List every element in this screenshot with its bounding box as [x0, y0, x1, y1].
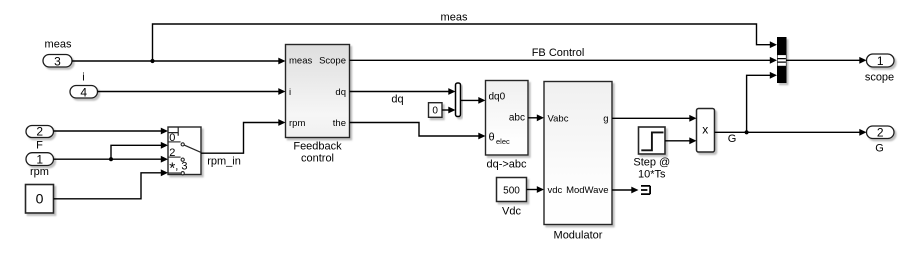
wire meas branch to bus creator (top) — [153, 24, 778, 61]
svg-text:ModWave: ModWave — [566, 185, 608, 196]
svg-text:rpm: rpm — [289, 118, 305, 129]
svg-text:abc: abc — [509, 113, 525, 124]
svg-text:Step @: Step @ — [633, 157, 670, 169]
wire feedback Scope to bus creator (FB Control) — [350, 57, 778, 64]
svg-text:G: G — [728, 133, 737, 145]
block dq->abc — [486, 81, 529, 156]
svg-text:i: i — [82, 71, 84, 83]
svg-text:g: g — [603, 113, 608, 124]
inport 2 (F) — [26, 125, 54, 139]
outport 1 (scope) — [867, 54, 895, 68]
bus creator — [777, 37, 787, 83]
wire Vdc to vdc — [527, 186, 545, 193]
svg-text:G: G — [875, 143, 884, 155]
svg-text:dq->abc: dq->abc — [486, 159, 527, 171]
terminator — [641, 186, 650, 194]
wire port2 to switch input 1 — [54, 128, 169, 135]
wire constant 0 to switch input 4 — [54, 169, 169, 198]
wire modulator g to product input 1 — [612, 115, 697, 122]
product block x — [697, 109, 715, 153]
constant Vdc (500) — [497, 178, 527, 202]
svg-text:x: x — [702, 123, 708, 137]
svg-text:dq: dq — [391, 94, 403, 106]
wire branch to switch input 2 — [111, 142, 168, 159]
svg-text:10*Ts: 10*Ts — [638, 168, 666, 180]
svg-text:F: F — [36, 140, 43, 152]
svg-text:meas: meas — [289, 56, 312, 67]
svg-text:vdc: vdc — [548, 185, 563, 196]
wire feedback dq to mux input 1 — [350, 88, 456, 95]
constant 0 (dq zero) — [429, 103, 443, 118]
svg-text:Feedback: Feedback — [293, 141, 342, 153]
step source block — [639, 127, 666, 154]
wire port4 to feedback i — [98, 88, 286, 95]
svg-text:2: 2 — [877, 126, 884, 140]
wire abc to Vabc — [528, 114, 544, 121]
constant 0 (rpm constant) — [26, 185, 54, 214]
svg-text:θ: θ — [489, 132, 495, 144]
svg-text:Scope: Scope — [319, 56, 346, 67]
svg-text:i: i — [289, 87, 291, 98]
svg-text:rpm: rpm — [30, 166, 49, 178]
wire step to product input 2 — [665, 137, 697, 144]
wire port3 to feedback meas — [72, 58, 286, 65]
svg-text:1: 1 — [877, 54, 884, 68]
inport 4 (i) — [70, 85, 98, 99]
wire branch to bus creator input 3 — [747, 72, 777, 132]
inport 1 (rpm) — [26, 152, 54, 166]
junction on meas wire — [150, 59, 154, 63]
svg-text:meas: meas — [45, 39, 72, 51]
junction on G wire — [745, 130, 749, 134]
svg-text:500: 500 — [503, 185, 520, 196]
wire bus creator to outport scope — [787, 57, 867, 64]
subsystem Modulator — [544, 82, 612, 225]
svg-text:2: 2 — [36, 125, 43, 139]
svg-text:0: 0 — [432, 106, 438, 117]
svg-text:scope: scope — [865, 71, 894, 83]
wire ModWave to terminator — [612, 187, 639, 194]
inport 3 (meas) — [43, 54, 72, 68]
svg-text:Vdc: Vdc — [502, 205, 521, 217]
wire product to outport G — [715, 129, 867, 136]
mux — [456, 83, 461, 117]
svg-text:meas: meas — [441, 11, 468, 23]
svg-text:control: control — [301, 153, 334, 165]
svg-text:the: the — [333, 118, 346, 129]
svg-text:4: 4 — [80, 85, 87, 99]
svg-text:1: 1 — [36, 152, 43, 166]
svg-text:rpm_in: rpm_in — [207, 156, 241, 168]
svg-text:0: 0 — [36, 190, 44, 206]
outport 2 (G) — [867, 126, 895, 140]
junction on rpm wire — [109, 157, 113, 161]
svg-text:elec: elec — [496, 137, 510, 146]
wire mux to dq0 — [461, 97, 486, 104]
wire feedback the to dq->abc theta — [350, 123, 486, 140]
wire switch to feedback rpm (rpm_in) — [201, 119, 286, 153]
subsystem Feedback control — [286, 45, 350, 138]
svg-text:dq0: dq0 — [489, 92, 506, 103]
multiport switch — [168, 127, 201, 177]
svg-text:dq: dq — [335, 87, 346, 98]
wire port1 to switch input 3 — [54, 156, 169, 163]
svg-text:Vabc: Vabc — [548, 113, 569, 124]
svg-text:Modulator: Modulator — [554, 230, 603, 242]
svg-text:FB Control: FB Control — [532, 47, 585, 59]
wire constant 0 to mux input 2 — [442, 107, 456, 114]
svg-text:3: 3 — [54, 54, 61, 68]
